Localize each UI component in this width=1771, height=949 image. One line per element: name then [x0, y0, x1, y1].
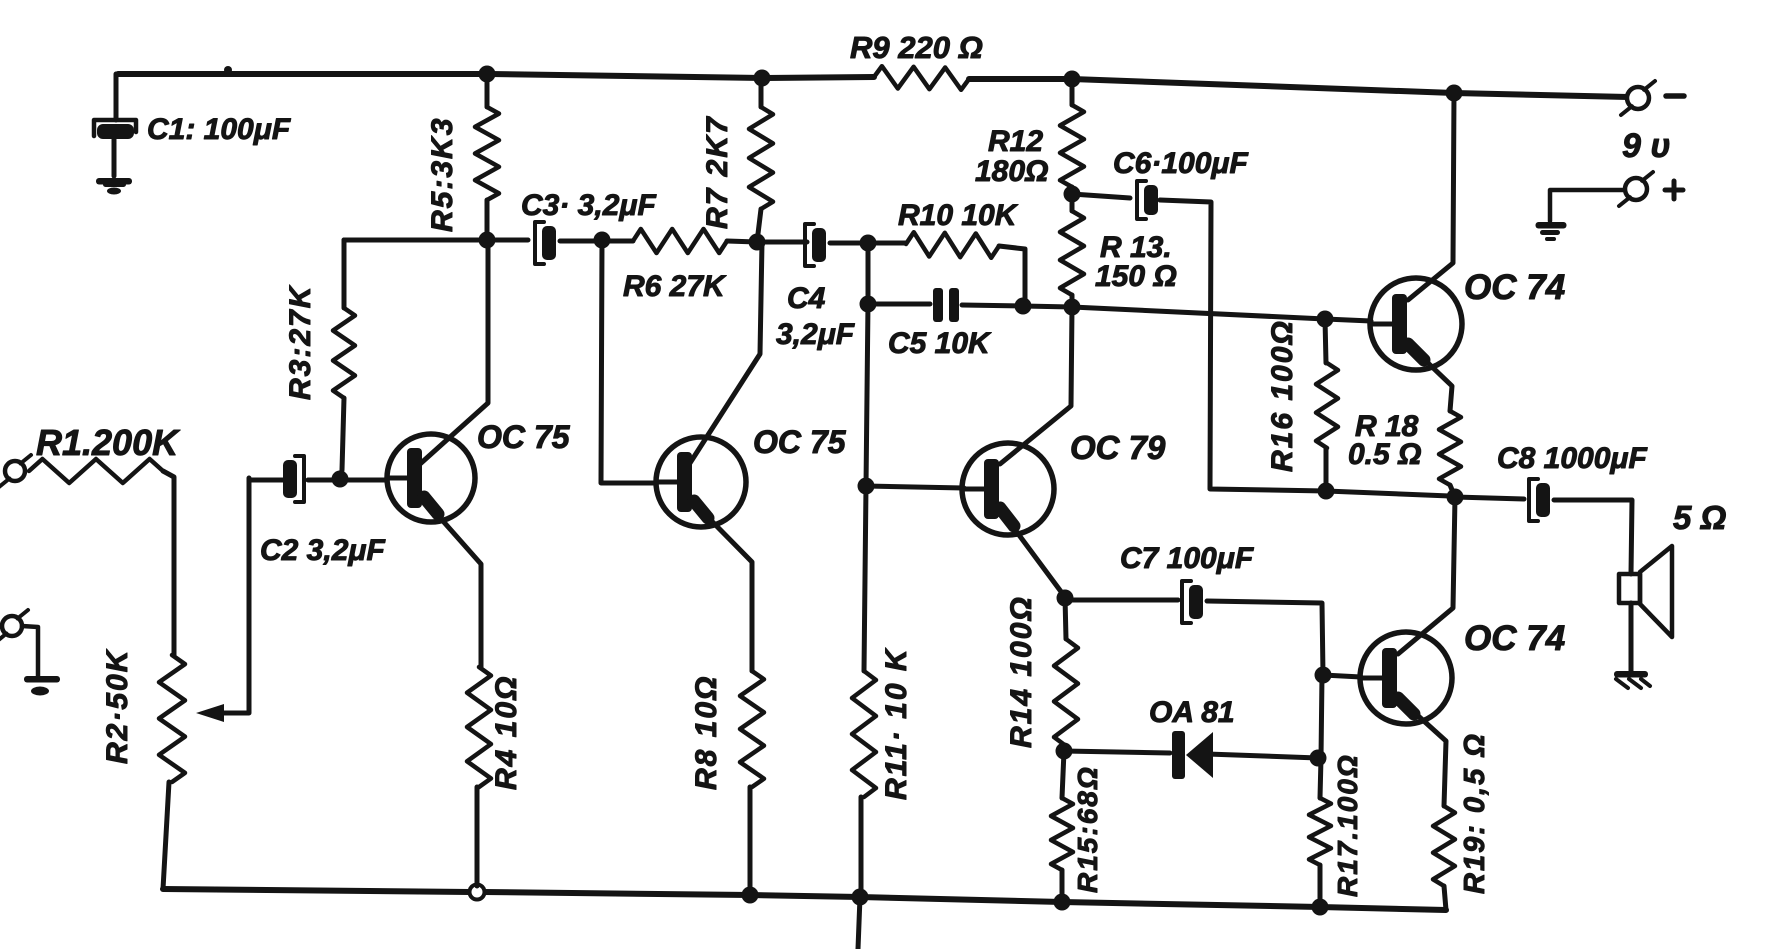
svg-text:OC 75: OC 75: [477, 419, 571, 455]
svg-text:R14 100Ω: R14 100Ω: [1005, 595, 1038, 748]
svg-text:R19: 0,5 Ω: R19: 0,5 Ω: [1459, 732, 1491, 894]
svg-text:R2·50K: R2·50K: [101, 648, 134, 764]
svg-text:180Ω: 180Ω: [975, 155, 1048, 188]
svg-text:R5:3K3: R5:3K3: [426, 117, 459, 232]
svg-text:R10 10K: R10 10K: [898, 199, 1019, 232]
svg-text:5 Ω: 5 Ω: [1673, 499, 1727, 536]
svg-text:C2 3,2μF: C2 3,2μF: [260, 534, 385, 567]
svg-text:R17.100Ω: R17.100Ω: [1332, 753, 1363, 897]
svg-text:0.5 Ω: 0.5 Ω: [1348, 438, 1421, 471]
svg-text:C6·100μF: C6·100μF: [1113, 147, 1248, 180]
svg-text:OC 74: OC 74: [1464, 268, 1565, 307]
svg-text:OC 74: OC 74: [1464, 619, 1565, 658]
svg-text:R12: R12: [988, 125, 1043, 158]
svg-text:OC 79: OC 79: [1070, 429, 1166, 466]
svg-text:3,2μF: 3,2μF: [776, 318, 855, 351]
svg-text:C5 10K: C5 10K: [888, 327, 992, 360]
svg-text:R4 10Ω: R4 10Ω: [490, 675, 523, 790]
svg-text:OC 75: OC 75: [753, 424, 847, 460]
svg-text:R7 2K7: R7 2K7: [701, 115, 734, 229]
svg-text:OA 81: OA 81: [1149, 696, 1235, 729]
svg-text:R15:68Ω: R15:68Ω: [1072, 765, 1103, 893]
svg-text:150 Ω: 150 Ω: [1095, 260, 1177, 293]
svg-text:R3:27K: R3:27K: [284, 284, 317, 400]
svg-text:C7 100μF: C7 100μF: [1120, 542, 1254, 575]
svg-text:C8 1000μF: C8 1000μF: [1497, 442, 1648, 475]
svg-text:R11· 10 K: R11· 10 K: [880, 647, 913, 800]
svg-text:R9 220 Ω: R9 220 Ω: [850, 30, 983, 65]
svg-text:C4: C4: [787, 282, 826, 315]
svg-text:R1.200K: R1.200K: [36, 422, 181, 463]
svg-text:R8 10Ω: R8 10Ω: [690, 675, 723, 790]
svg-text:C3· 3,2μF: C3· 3,2μF: [521, 189, 656, 222]
svg-text:C1: 100μF: C1: 100μF: [147, 113, 291, 146]
svg-text:R6 27K: R6 27K: [623, 270, 727, 303]
svg-text:R16 100Ω: R16 100Ω: [1266, 319, 1299, 472]
svg-text:9 υ: 9 υ: [1622, 127, 1670, 165]
